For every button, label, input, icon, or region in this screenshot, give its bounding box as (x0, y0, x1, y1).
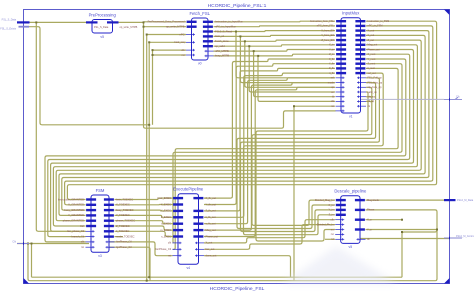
wire Descale Phase output U-loop (366, 210, 438, 277)
svg-text:FSL0_M_Control: FSL0_M_Control (456, 235, 474, 238)
wire net InputMux out 15 loop (256, 92, 368, 241)
svg-text:rst: rst (81, 245, 84, 249)
wire net ExecutePipeline out 3 feedback riser to InputMux (204, 73, 335, 217)
wire trunk x152.5 (152, 50, 154, 125)
node InputMux pin name labels (310, 20, 389, 108)
svg-text:op_write_MTPB: op_write_MTPB (120, 26, 138, 29)
svg-text:op_done_op: op_done_op (368, 86, 383, 89)
wire net InputMux out 17 stub (366, 100, 373, 102)
svg-text:Z_TOEXEC: Z_TOEXEC (116, 224, 130, 228)
node wire junction dots (27, 21, 438, 281)
svg-text:Y_in: Y_in (328, 208, 334, 212)
svg-text:rst: rst (168, 254, 171, 258)
node port FSL0_M_Data right (444, 199, 456, 201)
wire net Fetch_FSL out 3 to InputMux row 3 (214, 35, 336, 36)
svg-text:Instr_TOEXEC: Instr_TOEXEC (116, 197, 133, 201)
svg-text:PreProcessed_Data_Processed: PreProcessed_Data_Processed (148, 20, 185, 24)
wire net InputMux out 6 loop to left (51, 50, 414, 232)
wire Fetch_FSL input feed B (144, 26, 187, 28)
wire bottom band 1 (32, 276, 403, 278)
wire Fetch feed from trunk x146.7 (147, 34, 186, 36)
block Descale_pipeline U_descale (315, 189, 380, 250)
svg-text:it_TOEXEC: it_TOEXEC (116, 229, 129, 233)
svg-text:Z_in: Z_in (329, 53, 334, 56)
svg-text:InputMux: InputMux (342, 11, 360, 16)
svg-text:sel_out: sel_out (368, 72, 376, 75)
wire net op_write_MTPB PreProcessing out (119, 21, 144, 23)
wire net Fetch_FSL out 1 to InputMux row 1 (214, 25, 336, 28)
wire net InputMux out 11 loop (244, 73, 384, 235)
block InputMux U_inputmux (336, 11, 367, 119)
wire net Fetch_FSL out 5 to InputMux row 5 (214, 45, 336, 46)
wire net Fetch_FSL out 4 to InputMux row 4 (214, 40, 336, 41)
wire net InputMux out 16 stub (366, 96, 373, 98)
wire trunk x149.2 to band 1 (148, 42, 150, 277)
block PreProcessing U_preproc (86, 12, 138, 39)
svg-text:X_EXEC: X_EXEC (161, 202, 171, 206)
svg-text:FSL_Has_op: FSL_Has_op (368, 81, 383, 84)
svg-text:PreProcessing: PreProcessing (89, 12, 117, 17)
wire net InputMux out 9 loop to left (173, 64, 403, 243)
svg-text:Z_in: Z_in (329, 213, 335, 217)
svg-text:nPC_MTPB: nPC_MTPB (215, 49, 229, 53)
svg-text:Instruction_to_InputMux: Instruction_to_InputMux (215, 20, 243, 24)
svg-text:busy_MTPB: busy_MTPB (215, 54, 229, 58)
wire net InputMux out 4 loop to left (56, 40, 421, 221)
wire net FSM out 1 to ExecutePipeline (115, 204, 173, 206)
wire net InputMux out 13 loop (237, 83, 376, 229)
svg-text:Phase_out: Phase_out (368, 48, 380, 51)
wire trunk x146.7 and band 2 (147, 35, 437, 281)
svg-text:X_next: X_next (368, 53, 376, 56)
svg-text:rst: rst (331, 232, 334, 236)
wire Descale X output to riser (366, 219, 403, 221)
wire net InputMux out 2 loop to left (62, 31, 429, 211)
svg-text:Y_TOEXEC: Y_TOEXEC (116, 213, 130, 217)
svg-text:sel: sel (331, 77, 335, 80)
svg-text:Z_fb: Z_fb (329, 67, 335, 70)
svg-text:IterPhase_Ctl: IterPhase_Ctl (116, 240, 132, 244)
svg-text:Z_from_EX: Z_from_EX (321, 39, 334, 42)
svg-text:Y_o: Y_o (367, 227, 372, 231)
wire net InputMux clk riser (294, 106, 335, 281)
svg-text:v4: v4 (186, 266, 190, 270)
node port FSL_S_Exists left (19, 26, 30, 28)
svg-text:s_fb_out: s_fb_out (206, 222, 216, 226)
wire branch Fetch_FSL out 5 to InputMux row 15 (249, 46, 335, 92)
wire net FSM out 3 to ExecutePipeline (115, 215, 173, 217)
svg-text:nPC: nPC (179, 32, 184, 36)
svg-text:Instruction_to_FSM: Instruction_to_FSM (368, 20, 390, 23)
wire net InputMux out 12 loop (241, 78, 380, 232)
wire net ExecutePipeline out 0 feedback riser to InputMux (204, 59, 335, 198)
svg-text:ExecutePipeline: ExecutePipeline (173, 187, 204, 192)
wire Fetch feed from trunk x152.5 (153, 49, 187, 51)
wire net FSL_S_Data branch down to FSM row6 (36, 22, 85, 231)
svg-text:phase_TOEXEC: phase_TOEXEC (116, 219, 135, 223)
wire net ExecutePipeline out 6 feedback riser to InputMux (204, 87, 335, 236)
wire net InputMux out 7 loop to left (48, 54, 410, 236)
wire net FSM out 9 down to band (109, 247, 150, 281)
svg-text:FSL_S_Data: FSL_S_Data (94, 26, 109, 29)
wire branch Fetch_FSL out 2 to InputMux row 12 (236, 32, 335, 78)
svg-text:Phase_out: Phase_out (206, 234, 219, 238)
wire net FSM out 7 stub (115, 236, 124, 238)
svg-text:X_from_EX: X_from_EX (321, 29, 334, 32)
svg-text:Divided_Ph_In: Divided_Ph_In (317, 222, 334, 226)
wire net Fetch_FSL out 2 to InputMux row 2 (214, 30, 336, 33)
wire net Clk to right border port (361, 98, 445, 100)
wire net InputMux out 10 loop to left (173, 68, 399, 249)
svg-text:Y_fb_out: Y_fb_out (206, 202, 217, 206)
svg-text:HCORDIC_Pipeline_FSL: HCORDIC_Pipeline_FSL (210, 286, 265, 292)
svg-text:X_fb_out: X_fb_out (206, 196, 217, 200)
wire Fetch_FSL input feed A (144, 21, 187, 23)
svg-text:Magnitude: Magnitude (367, 198, 380, 202)
wire net Clk drop to band 1 (31, 244, 33, 278)
wire Descale dn output to right port FSL0_M_Control (360, 238, 450, 240)
wire net FSM out 8 to ExecutePipeline (109, 242, 173, 256)
wire net Fetch_FSL out 7 to InputMux row 7 (214, 54, 336, 56)
block ExecutePipeline U_exec (155, 187, 218, 270)
svg-text:X_o: X_o (367, 218, 372, 222)
wire net Fetch_FSL out 6 to InputMux row 6 (214, 50, 336, 52)
svg-text:Iter_out: Iter_out (206, 247, 215, 251)
svg-text:X_fb: X_fb (329, 58, 335, 61)
svg-text:rst: rst (182, 53, 185, 57)
svg-text:Z_next: Z_next (368, 62, 376, 65)
svg-text:FSL_S_Exists: FSL_S_Exists (0, 27, 16, 30)
svg-text:ctl_op: ctl_op (368, 100, 375, 103)
svg-text:valid_op: valid_op (368, 91, 378, 94)
svg-text:Mag_out: Mag_out (206, 228, 216, 232)
svg-text:Divided_Mag_In: Divided_Mag_In (315, 198, 334, 202)
wire net ExecutePipeline out 1 feedback riser to InputMux (204, 64, 335, 205)
node port Clk right (444, 97, 462, 99)
svg-text:it_next: it_next (368, 67, 376, 70)
svg-text:Y_GRANTED: Y_GRANTED (68, 213, 84, 217)
svg-text:m_EXEC: m_EXEC (160, 228, 171, 232)
wire net Instruction Fetch_FSL to InputMux (214, 20, 336, 23)
svg-text:Instruction_from_FSL: Instruction_from_FSL (310, 20, 335, 23)
svg-text:v3: v3 (98, 254, 102, 258)
wire net FSM out 6 to ExecutePipeline (115, 231, 173, 236)
wire branch Fetch_FSL out 7 to InputMux row 17 (258, 56, 335, 102)
node port FSL_S_Data left (17, 21, 30, 23)
wire net InputMux out 14 loop (252, 87, 372, 225)
node faint watermark triangle (282, 246, 398, 284)
wire net InputMux out 1 loop to left (65, 26, 433, 205)
wire net InputMux out 8 loop to left (45, 59, 406, 242)
svg-text:nPC_to_InputMux: nPC_to_InputMux (215, 25, 236, 29)
svg-text:IgnPhase_Ctl: IgnPhase_Ctl (116, 245, 132, 249)
svg-text:op_valid: op_valid (215, 44, 225, 48)
wire net ExecutePipeline out 8 to Descale row (204, 225, 335, 250)
svg-text:v1: v1 (349, 115, 353, 119)
svg-text:Phase: Phase (367, 208, 375, 212)
svg-text:v5: v5 (349, 245, 353, 249)
svg-text:it_EXEC: it_EXEC (161, 222, 171, 226)
wire branch Fetch_FSL out 3 to InputMux row 13 (240, 36, 335, 82)
wire net FSM out 0 to ExecutePipeline (115, 198, 173, 199)
node port FSL0_M_Control right (444, 237, 462, 239)
svg-text:Y_out: Y_out (368, 34, 375, 37)
svg-text:Z_out: Z_out (368, 39, 375, 42)
svg-text:X_in: X_in (329, 44, 335, 47)
svg-text:mode: mode (328, 81, 335, 84)
svg-text:FSL_Full_op: FSL_Full_op (368, 77, 383, 80)
svg-text:done_out: done_out (206, 254, 217, 258)
wire Descale output Magnitude to right port (366, 199, 445, 201)
svg-text:Instr_rd: Instr_rd (215, 34, 224, 38)
svg-text:Y_in: Y_in (329, 48, 335, 51)
svg-text:FSL_S_Data: FSL_S_Data (2, 18, 17, 21)
wire Fetch feed from trunk x149.2 (149, 41, 186, 43)
wire net InputMux out 3 loop to left (59, 35, 425, 215)
svg-text:op_write_MTPB: op_write_MTPB (166, 25, 185, 29)
svg-text:busy_TOEXEC: busy_TOEXEC (116, 208, 134, 212)
block FSM U_fsm (58, 188, 135, 258)
svg-text:Instr_req: Instr_req (174, 40, 185, 44)
svg-text:Fetch_done: Fetch_done (215, 39, 229, 43)
svg-text:FSL0_M_Data: FSL0_M_Data (457, 199, 474, 202)
node port Clk left (17, 243, 29, 245)
svg-text:branch_Ctl: branch_Ctl (71, 234, 84, 238)
wire net ExecutePipeline out 9 to band (204, 256, 291, 278)
wire net ExecutePipeline out 7 to Descale clk row (204, 220, 335, 243)
wire Descale dn row stub (325, 238, 335, 240)
svg-text:s_EXEC: s_EXEC (161, 234, 171, 238)
wire net ExecutePipeline out 2 feedback riser to InputMux (204, 68, 335, 211)
svg-text:HCORDIC_Pipeline_FSL:1: HCORDIC_Pipeline_FSL:1 (208, 3, 267, 9)
wire net Clk from left port to FSM (17, 243, 89, 245)
wire net InputMux out 0 loop to left (67, 21, 436, 199)
wire net InputMux out 5 loop to left (53, 45, 417, 226)
svg-text:IterPhase_Ctl: IterPhase_Ctl (155, 247, 171, 251)
svg-text:Iter_phase_Ctl: Iter_phase_Ctl (67, 229, 84, 233)
svg-text:busy_GRANTED: busy_GRANTED (64, 208, 84, 212)
wire net ExecutePipeline out 5 feedback riser to InputMux (204, 83, 335, 231)
svg-text:nPC_to_FSM: nPC_to_FSM (368, 25, 383, 28)
wire branch Fetch_FSL out 4 to InputMux row 14 (245, 41, 335, 87)
svg-text:X_TOEXEC: X_TOEXEC (116, 203, 130, 207)
wire branch Fetch_FSL out 6 to InputMux row 16 (254, 51, 335, 97)
svg-text:Fetch_FSL: Fetch_FSL (190, 11, 211, 16)
svg-text:X_in: X_in (328, 203, 334, 207)
wire net FSL_S_Exists from left port (29, 27, 149, 125)
svg-text:Ctrl: Ctrl (80, 224, 84, 228)
svg-text:v5: v5 (100, 35, 104, 39)
svg-text:phase_GRANTED: phase_GRANTED (63, 219, 84, 223)
svg-text:Z_fb_out: Z_fb_out (206, 209, 217, 213)
svg-text:Descale_pipeline: Descale_pipeline (334, 189, 367, 194)
block Fetch_FSL U_fetch (148, 11, 244, 66)
svg-text:Y_next: Y_next (368, 58, 376, 61)
svg-text:Y_from_EX: Y_from_EX (321, 34, 334, 37)
svg-text:rst: rst (331, 105, 334, 108)
svg-text:nPC_from_FSL: nPC_from_FSL (317, 25, 335, 28)
wire net FSL_S_Data from left port to PreProcessing (30, 21, 89, 23)
svg-text:rdy_op: rdy_op (368, 96, 376, 99)
svg-text:FSL0_S_Read: FSL0_S_Read (215, 29, 233, 33)
svg-text:it_fb: it_fb (329, 72, 334, 75)
svg-text:mode_TOEXEC: mode_TOEXEC (116, 234, 135, 238)
svg-text:Mag_out: Mag_out (368, 44, 378, 47)
svg-text:FSM: FSM (96, 188, 105, 193)
wire long vertical trunk x143.5 to InputMux row19 (144, 22, 336, 128)
svg-text:Y_EXEC: Y_EXEC (161, 209, 171, 213)
svg-text:X_out: X_out (206, 241, 213, 245)
svg-text:X_GRANTED: X_GRANTED (68, 203, 84, 207)
svg-text:it_fb_out: it_fb_out (206, 215, 216, 219)
wire net FSM out 4 to ExecutePipeline (115, 221, 173, 224)
wire net ExecutePipeline out 4 feedback riser to InputMux (204, 78, 335, 224)
wire Fetch feed branch from trunk x152.5 (153, 54, 187, 56)
wire net FSM out 2 to ExecutePipeline (115, 209, 173, 212)
wire bottom band 2 left leg (28, 244, 147, 281)
svg-text:v0: v0 (198, 62, 202, 66)
svg-text:X_out: X_out (368, 29, 375, 32)
svg-text:Z_EXEC: Z_EXEC (161, 215, 171, 219)
svg-text:Y_fb: Y_fb (329, 62, 335, 65)
svg-text:Instr_EXEC: Instr_EXEC (157, 196, 171, 200)
svg-text:Instruction_GRANTED: Instruction_GRANTED (58, 197, 84, 201)
wire net FSM out 5 to ExecutePipeline (115, 226, 173, 230)
